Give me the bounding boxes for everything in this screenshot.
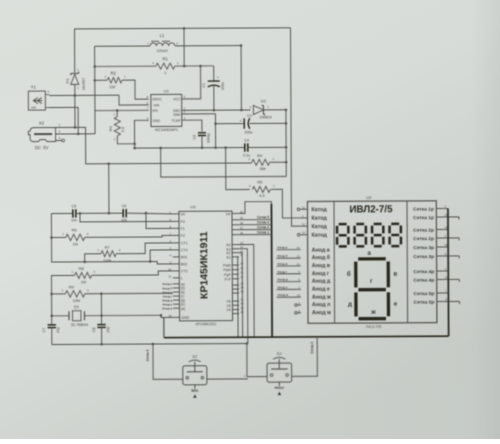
svg-text:1N4007: 1N4007 — [82, 78, 86, 91]
svg-text:R3: R3 — [108, 125, 113, 131]
wire bus vertical — [270, 204, 273, 337]
IC U3 KR145IK1911 box — [179, 211, 233, 321]
svg-text:Р-Р: Р-Р — [225, 277, 232, 281]
display big segment diagram — [358, 257, 385, 260]
U2 right stub wires — [443, 207, 448, 209]
wire pin1 long run to R4 — [75, 126, 252, 163]
svg-text:GND: GND — [181, 316, 190, 320]
U3 anode pins — [173, 283, 179, 285]
wire anod m nc — [295, 312, 298, 315]
svg-text:24p: 24p — [106, 327, 110, 333]
svg-text:Катод: Катод — [311, 207, 327, 213]
svg-text:MC34063AP1: MC34063AP1 — [155, 128, 178, 132]
node R5 rail junction — [224, 146, 227, 149]
op-amp U1 MC34063AP1 — [151, 94, 182, 126]
wire D2 right — [263, 109, 285, 111]
capacitor C1 100u — [208, 80, 220, 82]
capacitor C5 10n — [72, 209, 74, 217]
resistor R1 value 1 — [156, 63, 175, 69]
node R3 top junction — [116, 109, 119, 112]
svg-text:Uп: Uп — [180, 212, 185, 216]
svg-text:Анод д: Анод д — [312, 279, 331, 285]
switch S1 Hour — [267, 363, 292, 382]
wires anode nets — [276, 249, 300, 251]
svg-text:(ж): (ж) — [181, 307, 185, 311]
node R4 out junction — [285, 161, 288, 164]
svg-text:Анод ж: Анод ж — [277, 293, 289, 297]
svg-text:Анод ж: Анод ж — [162, 306, 173, 310]
node C4 out junction — [285, 146, 288, 149]
wire F1 feed — [146, 213, 173, 229]
svg-text:1: 1 — [164, 71, 166, 75]
wires setka nets to bus — [239, 219, 272, 221]
wire S2 right — [207, 378, 248, 380]
capacitor C2 200u — [243, 118, 245, 128]
wire gnd loop — [161, 147, 287, 177]
wire CT3 riser — [150, 250, 173, 262]
inductor L1 120uH — [95, 45, 150, 47]
svg-text:3.3: 3.3 — [121, 127, 125, 132]
svg-text:Анод е: Анод е — [277, 285, 288, 289]
wire R7 left — [85, 254, 101, 262]
wire U3 Up to bus — [239, 202, 272, 214]
svg-text:1000p: 1000p — [207, 133, 211, 143]
U3 GND pin — [173, 316, 179, 318]
diode D2 1N5819 — [253, 105, 263, 114]
node L1 corner dot — [240, 44, 243, 47]
svg-text:Анод а: Анод а — [277, 245, 288, 249]
svg-text:4.3: 4.3 — [259, 194, 264, 198]
wire Q1 to GND pin — [161, 315, 173, 317]
svg-text:Сетка 3: Сетка 3 — [310, 342, 314, 354]
svg-text:Анод а: Анод а — [312, 247, 330, 253]
resistor R2 value 100 — [107, 77, 122, 83]
wire R8 left — [51, 275, 74, 294]
svg-text:DRVC: DRVC — [152, 98, 162, 102]
svg-text:Y1: Y1 — [31, 85, 37, 90]
wire C2 left — [215, 123, 244, 125]
wire VCC riser — [181, 66, 200, 99]
node riser-SWC junction — [240, 109, 243, 112]
svg-text:F2: F2 — [181, 234, 185, 238]
svg-text:D1: D1 — [65, 78, 70, 84]
wire R2 right to DRVC — [122, 80, 149, 99]
svg-text:68k: 68k — [260, 167, 266, 171]
wire right power vertical — [290, 28, 300, 226]
wire R7 right to CT1 — [116, 243, 173, 254]
svg-text:U1: U1 — [164, 88, 170, 93]
svg-text:Uп: Uп — [226, 212, 231, 216]
katod4 nc circle — [297, 233, 300, 236]
svg-text:Hour: Hour — [275, 385, 285, 390]
wire C1 bottom drop — [213, 85, 215, 110]
wire R6 right to F2 — [85, 235, 173, 237]
svg-text:Сетка 3р: Сетка 3р — [413, 254, 434, 260]
wire X1 minus down to X2 pin2 — [49, 107, 78, 134]
svg-text:CT3: CT3 — [181, 248, 188, 252]
wire C2 right — [250, 122, 286, 124]
svg-text:S2: S2 — [192, 354, 198, 359]
node VCC riser junction — [199, 65, 202, 68]
node R3 rail dot — [133, 147, 136, 150]
node on C5C6 wire — [108, 212, 111, 215]
svg-text:F1: F1 — [181, 227, 185, 231]
svg-text:Сетка 4р: Сетка 4р — [413, 278, 434, 284]
svg-text:C6: C6 — [121, 204, 126, 208]
node R1-topriser junction — [183, 65, 186, 68]
capacitor C8 24p — [97, 324, 105, 326]
svg-text:R8: R8 — [79, 266, 85, 271]
wire R9 right — [85, 292, 173, 294]
node Q1 left junction — [50, 315, 53, 318]
resistor R9 10M — [65, 291, 85, 298]
svg-text:а: а — [367, 250, 371, 257]
svg-text:R2: R2 — [111, 71, 117, 76]
svg-text:100: 100 — [109, 85, 115, 89]
svg-text:Сетка 2: Сетка 2 — [257, 225, 269, 229]
node F3 feed junction — [79, 212, 82, 215]
svg-text:F3: F3 — [180, 220, 184, 224]
node D2 out junction — [285, 109, 288, 112]
wire R1 left — [95, 65, 156, 67]
wire X2 pin2 — [56, 133, 95, 135]
svg-text:Сетка 5р: Сетка 5р — [414, 291, 435, 297]
U3 right pins — [232, 212, 239, 214]
diode D1 1N4007 — [71, 74, 79, 84]
wire X2 pin1 — [56, 126, 75, 128]
svg-text:-VIN: -VIN — [152, 103, 159, 107]
wire rail left riser — [163, 317, 165, 337]
wire F3 feed — [80, 213, 173, 222]
wire R4 right — [270, 161, 286, 163]
wire TCAP — [182, 120, 202, 132]
svg-text:Сетка 1: Сетка 1 — [257, 230, 269, 234]
wire C7 down — [51, 328, 53, 345]
svg-text:Сетка 4: Сетка 4 — [146, 349, 150, 361]
display U2 box — [307, 201, 437, 323]
wire R8 right — [92, 271, 173, 275]
wire output vertical — [285, 110, 287, 177]
wire C5C6 run — [51, 212, 72, 214]
wire top rail y28 — [74, 28, 290, 29]
svg-text:C2: C2 — [247, 114, 252, 118]
wire branch down to C5C6 — [108, 164, 110, 213]
svg-text:Анод м: Анод м — [312, 310, 331, 316]
svg-text:100u: 100u — [221, 82, 225, 90]
wire S1 left riser — [247, 343, 267, 376]
svg-text:S1: S1 — [277, 351, 283, 356]
svg-text:У4: У4 — [227, 308, 231, 312]
svg-text:1M: 1M — [72, 242, 77, 246]
svg-text:SWE: SWE — [173, 113, 180, 117]
node R3 corner dot — [133, 143, 136, 146]
wire right thick vertical — [447, 208, 450, 336]
node R9 left junction — [50, 293, 53, 296]
wire K4 drop — [239, 244, 254, 337]
svg-text:Анод е: Анод е — [312, 287, 330, 293]
node Q1 gnd junction — [160, 314, 163, 317]
wire main 5V vertical — [94, 46, 96, 133]
svg-text:IPK: IPK — [152, 109, 158, 113]
svg-text:КР145ИК1911: КР145ИК1911 — [198, 231, 210, 299]
node Q1 right junction — [100, 314, 103, 317]
wire IPK — [95, 109, 149, 111]
svg-text:г: г — [370, 278, 373, 285]
svg-text:32.768khz: 32.768khz — [71, 323, 89, 327]
node F1 feed junction — [145, 212, 148, 215]
svg-text:R1: R1 — [162, 56, 168, 61]
node gnd loop rail junction — [159, 147, 162, 150]
node C3 rail junction — [201, 146, 204, 149]
svg-text:24p: 24p — [56, 327, 60, 333]
svg-text:Анод г: Анод г — [277, 270, 288, 274]
resistor R5 4.3 — [252, 186, 270, 192]
svg-text:Сетка 2р: Сетка 2р — [413, 228, 434, 234]
resistor R4 68k — [252, 159, 270, 165]
svg-text:B01: B01 — [181, 255, 188, 259]
wire SWC — [182, 109, 251, 111]
svg-text:U2: U2 — [366, 195, 372, 200]
svg-text:Анод в: Анод в — [277, 262, 288, 266]
wire C3 bottom — [201, 136, 203, 148]
svg-text:C4: C4 — [244, 139, 249, 143]
wire D1 anode down — [74, 84, 76, 127]
wire R3 bottom — [117, 136, 134, 149]
svg-text:ИВЛ2-7/5: ИВЛ2-7/5 — [349, 204, 393, 215]
svg-text:CT2: CT2 — [181, 269, 188, 273]
wire X2 pin3 nc — [56, 139, 62, 141]
wire C8 down — [101, 327, 103, 344]
svg-text:1N5819: 1N5819 — [259, 115, 272, 119]
svg-text:Сетка 3р: Сетка 3р — [413, 245, 434, 251]
wire L1 riser down — [240, 46, 242, 110]
svg-text:РуМ: РуМ — [223, 268, 230, 272]
svg-text:Сетка 4: Сетка 4 — [257, 220, 269, 224]
resistor R8 1M — [75, 272, 92, 278]
svg-text:R7: R7 — [105, 245, 111, 250]
node R7 drop junction — [83, 261, 86, 264]
svg-text:VCC: VCC — [173, 98, 181, 102]
wire C6 right to Up pin — [126, 213, 172, 214]
wire anod l nc — [295, 304, 298, 307]
U3 left pins upper — [173, 213, 179, 215]
wire S1 right riser — [291, 337, 317, 377]
display 8888 digits — [339, 223, 347, 226]
node C2 out junction — [285, 122, 288, 125]
svg-text:L: L — [181, 276, 183, 280]
svg-text:е: е — [394, 301, 398, 308]
svg-text:200u: 200u — [245, 130, 253, 134]
wire left loop down — [51, 213, 172, 265]
node top rail junction — [183, 27, 186, 30]
svg-text:Анод б: Анод б — [312, 254, 331, 261]
node S1 riser junction — [246, 342, 249, 345]
svg-text:R9: R9 — [69, 284, 75, 289]
svg-text:Катод: Катод — [312, 233, 328, 239]
wire R5 left — [226, 148, 250, 190]
switch S2 Min — [183, 366, 207, 385]
svg-text:+: + — [239, 119, 241, 123]
wire Q1 right — [84, 314, 160, 316]
svg-text:100k: 100k — [103, 259, 111, 263]
capacitor C4 0.1u — [244, 143, 246, 151]
wire K1 drop — [238, 257, 240, 337]
svg-text:DC 5V: DC 5V — [35, 145, 49, 150]
node R1 left on 5V vert — [93, 65, 96, 68]
svg-text:R6: R6 — [71, 227, 77, 232]
wire Q1 left — [52, 315, 69, 317]
node SWE rail junction — [214, 146, 217, 149]
svg-text:C5: C5 — [71, 204, 76, 208]
svg-text:Анод л: Анод л — [312, 302, 330, 308]
svg-text:10n: 10n — [71, 218, 77, 222]
svg-text:в: в — [393, 271, 397, 278]
capacitor C6 10n — [122, 209, 124, 217]
wire ground rail — [135, 147, 245, 150]
wire U1 GND — [134, 120, 148, 143]
svg-text:Анод г: Анод г — [312, 271, 330, 277]
resistor R6 1M — [66, 234, 85, 240]
svg-text:Сетка 4р: Сетка 4р — [413, 269, 434, 275]
svg-text:R5: R5 — [257, 179, 263, 184]
svg-text:РуР: РуР — [224, 273, 231, 277]
svg-text:D2: D2 — [261, 98, 267, 103]
svg-text:KP145IK1911: KP145IK1911 — [196, 322, 217, 326]
svg-text:120uH: 120uH — [157, 49, 168, 53]
svg-text:1M: 1M — [81, 280, 86, 284]
wire C4 right — [248, 146, 286, 148]
node R6 left junction — [50, 236, 53, 239]
svg-text:B02: B02 — [181, 262, 188, 266]
svg-text:Сетка 2р: Сетка 2р — [413, 236, 434, 242]
svg-text:CT1: CT1 — [181, 241, 188, 245]
wire R2 left — [95, 79, 107, 81]
svg-text:д: д — [348, 301, 352, 308]
svg-text:IVL2-7/5: IVL2-7/5 — [366, 324, 382, 329]
capacitor C7 24p — [48, 324, 56, 326]
svg-text:Катод: Катод — [311, 216, 327, 222]
svg-text:Сетка 1р: Сетка 1р — [413, 207, 434, 213]
source Y1 — [28, 91, 45, 110]
svg-text:Анод д: Анод д — [277, 277, 288, 281]
node D1-X1 junction — [74, 94, 77, 97]
wire R9 left — [52, 293, 66, 295]
svg-text:б: б — [347, 270, 351, 278]
svg-text:TCAP: TCAP — [171, 119, 181, 123]
wire K3 drop — [239, 249, 248, 344]
wire K2 drop — [239, 253, 243, 338]
wire X1 plus to D1 line — [49, 94, 119, 96]
svg-text:К1: К1 — [226, 256, 230, 260]
katod1 nc circle — [297, 208, 300, 211]
svg-text:VAR: VAR — [31, 106, 36, 110]
svg-text:Сетка 5: Сетка 5 — [257, 215, 269, 219]
svg-text:Анод б: Анод б — [277, 254, 288, 258]
node branch at 109 — [107, 162, 110, 165]
wire R5 right to Katod2 — [271, 189, 301, 218]
node S2 riser junction — [152, 343, 155, 346]
svg-text:Анод ж: Анод ж — [312, 294, 331, 300]
svg-text:10M: 10M — [73, 299, 80, 303]
svg-text:Q1: Q1 — [74, 304, 80, 309]
svg-text:L1: L1 — [160, 33, 165, 38]
svg-text:X2: X2 — [39, 121, 45, 126]
svg-text:C1: C1 — [202, 83, 206, 88]
svg-text:U3: U3 — [190, 204, 196, 209]
node C8 rail junction — [100, 343, 103, 346]
capacitor C3 1000p — [198, 132, 206, 134]
wire C1 drop — [213, 66, 215, 81]
svg-text:R4: R4 — [257, 153, 263, 158]
svg-text:Сетка 5р: Сетка 5р — [414, 300, 435, 306]
resistor R7 100k — [101, 251, 116, 257]
wire VIN route — [119, 95, 149, 105]
svg-text:C7: C7 — [42, 328, 46, 333]
wire C5-C6 — [76, 212, 123, 214]
wire L1 to corner — [175, 45, 241, 47]
wire S2 left riser — [153, 344, 183, 380]
node C1-SWC junction — [213, 109, 216, 112]
wire right vert R9-Q1-C8 — [100, 294, 102, 324]
connector X2 DC 5V — [28, 128, 55, 142]
svg-text:Анод в: Анод в — [312, 263, 331, 269]
node D1-X2pin1 junction — [74, 126, 77, 129]
svg-text:GND: GND — [152, 119, 160, 123]
svg-text:Катод: Катод — [312, 224, 328, 230]
wire top riser — [183, 28, 185, 66]
svg-text:+: + — [217, 76, 219, 80]
node SWE-C2 junction — [214, 122, 217, 125]
wire SWE — [182, 114, 216, 148]
svg-text:C8: C8 — [92, 327, 96, 332]
wire thick bottom rail — [164, 336, 449, 337]
wire D1 cathode to top rail — [73, 29, 75, 72]
node X1minus-pin2 junction — [77, 133, 80, 136]
wire R6 left — [51, 236, 65, 238]
wire thin bottom rail — [52, 344, 247, 345]
node CT3 riser junction — [149, 260, 152, 263]
svg-text:C3: C3 — [193, 135, 197, 140]
resistor R3 value 3.3 — [116, 110, 118, 116]
wire left vert to C7 — [51, 294, 53, 324]
node R2 on 5V vert — [94, 79, 97, 82]
svg-text:Сетка 1р: Сетка 1р — [413, 215, 434, 221]
svg-text:РиМ: РиМ — [223, 264, 231, 268]
svg-text:Min: Min — [191, 388, 198, 393]
node R9 right junction — [100, 292, 103, 295]
wire R1 right — [175, 65, 214, 67]
crystal Q1 32.768kHz — [68, 311, 70, 320]
svg-text:ж: ж — [370, 309, 376, 316]
